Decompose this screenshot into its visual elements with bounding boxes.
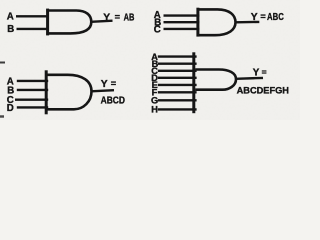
svg-text:B: B [7, 24, 14, 35]
wire U3 input C [15, 98, 48, 100]
wire U1 input A [16, 15, 49, 17]
wire U4 output Y [236, 77, 263, 80]
wire U2 input A [164, 14, 200, 16]
wire U3 input D [17, 106, 48, 108]
wire U4 input G [158, 99, 197, 101]
wire U3 output Y [91, 90, 114, 91]
wire U4 input E [158, 84, 197, 86]
AND gate U1 input bar [46, 9, 49, 36]
svg-text:ABCDEFGH: ABCDEFGH [237, 85, 289, 96]
svg-text:Y: Y [103, 12, 110, 23]
svg-text:=: = [260, 11, 265, 21]
wire U4 input A [158, 55, 197, 57]
svg-text:H: H [151, 105, 158, 115]
scan speck left edge [0, 62, 5, 64]
wire U2 output Y [235, 21, 259, 24]
wire U4 input F [158, 91, 197, 93]
wire U4 input D [158, 77, 197, 79]
svg-text:A: A [7, 12, 14, 23]
AND gate U2 body [197, 9, 236, 35]
svg-text:ABCD: ABCD [101, 96, 125, 107]
svg-text:=: = [115, 12, 120, 22]
wire U2 input C [164, 28, 200, 30]
svg-text:C: C [154, 25, 161, 36]
wire U4 input H [158, 108, 197, 110]
AND gate U3 input bar [45, 70, 48, 114]
scan speck bottom-left corner [0, 115, 4, 117]
wire U4 input B [158, 63, 197, 65]
paper background [0, 0, 300, 120]
AND gate U1 body [46, 11, 91, 34]
svg-text:Y: Y [101, 79, 108, 90]
AND gate U4 body [195, 70, 236, 90]
svg-text:AB: AB [124, 12, 135, 23]
AND gate U2 input bar [196, 8, 199, 37]
wire U4 input C [158, 70, 197, 72]
svg-text:=: = [262, 67, 267, 77]
AND gate U4 extended input bar [192, 52, 195, 113]
svg-text:ABC: ABC [267, 12, 284, 23]
svg-text:Y: Y [251, 12, 258, 23]
svg-text:D: D [7, 103, 14, 114]
wire U1 output Y [91, 21, 113, 22]
wire U3 input A [17, 80, 48, 82]
AND gate U3 body [45, 75, 92, 110]
wire U2 input B [164, 21, 200, 23]
wire U3 input B [17, 89, 48, 91]
svg-text:=: = [111, 79, 116, 89]
wire U1 input B [17, 28, 49, 30]
svg-text:Y: Y [253, 67, 260, 78]
